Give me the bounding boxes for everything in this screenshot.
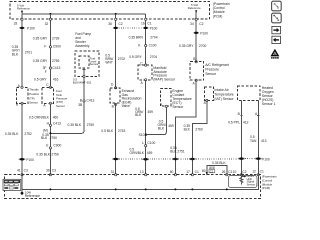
svg-text:2700: 2700 <box>199 44 207 48</box>
svg-text:416: 416 <box>53 78 59 82</box>
PCM bottom dashed box <box>5 175 261 199</box>
svg-text:Reference: Reference <box>17 7 30 11</box>
5V reference bus (top) <box>22 13 146 15</box>
label 0.5 PPL 412 <box>228 121 248 125</box>
connector K C100 <box>138 43 156 47</box>
svg-text:2750: 2750 <box>50 136 58 140</box>
EGR pin D <box>111 83 117 89</box>
label 0.35 GRY/BLK 2701 (TP wire) <box>12 45 32 56</box>
svg-text:12: 12 <box>252 169 256 173</box>
PCM top label <box>213 2 230 19</box>
svg-text:P100: P100 <box>27 26 35 30</box>
svg-text:C3: C3 <box>52 169 56 173</box>
label 0.5 BRN/WHT 2702 (EGR 5V) <box>105 54 125 65</box>
pin 26 C1 <box>222 170 233 176</box>
label 0.35 BLK 2751 <box>170 146 185 153</box>
connector H C413 <box>47 122 61 127</box>
wire: IAT low ref elbow <box>192 101 206 175</box>
svg-text:32: 32 <box>45 22 49 26</box>
label 0.5 GRY 2704 <box>129 55 157 59</box>
5 Volt Reference label 1 <box>17 3 30 14</box>
svg-text:C413: C413 <box>87 99 95 103</box>
svg-text:459: 459 <box>147 151 153 155</box>
TP sensor label <box>29 88 39 105</box>
svg-text:0.35 BLK: 0.35 BLK <box>5 132 19 136</box>
label 0.5 ORN/BLK 460 <box>29 116 58 120</box>
svg-text:C2: C2 <box>210 169 214 173</box>
PCM top dashed box <box>10 2 210 20</box>
pin 60 <box>170 170 177 176</box>
svg-text:60: 60 <box>170 170 174 174</box>
label 808 boxed C2 <box>209 166 215 173</box>
svg-text:651: 651 <box>87 81 92 85</box>
MAP sensor dashed box <box>138 65 152 80</box>
svg-text:413: 413 <box>261 139 267 143</box>
svg-text:C2: C2 <box>242 170 246 174</box>
svg-text:Assembly: Assembly <box>75 44 90 48</box>
AC sensor label <box>205 63 229 76</box>
fuel level sensor dashed box <box>79 56 89 68</box>
grommet (EGR low) <box>112 158 119 161</box>
svg-text:P100: P100 <box>200 31 208 35</box>
svg-text:2704: 2704 <box>150 55 158 59</box>
svg-text:36: 36 <box>46 169 50 173</box>
wire: MAP low ref <box>145 80 147 175</box>
svg-text:10: 10 <box>233 170 237 174</box>
grommet (MAP low) <box>142 158 149 161</box>
HO2S dashed box <box>237 86 260 101</box>
label 0.35 BLK 2750 <box>41 133 57 140</box>
svg-text:BLK: BLK <box>170 149 177 153</box>
svg-text:C3: C3 <box>24 169 28 173</box>
svg-text:(MAP) Sensor: (MAP) Sensor <box>153 77 175 81</box>
junction dot <box>49 13 51 15</box>
pin 36 C2 <box>108 18 123 26</box>
svg-text:2759: 2759 <box>87 123 95 127</box>
HO2S pin A <box>255 112 259 116</box>
svg-text:WHT: WHT <box>105 61 113 65</box>
grommet (412) <box>238 157 245 160</box>
svg-text:ORN/BLK: ORN/BLK <box>130 151 145 155</box>
label 0.5 ORN/BLK 459 (ECT) <box>158 120 174 131</box>
splice S102 <box>139 133 147 137</box>
connector F C900 <box>44 44 61 48</box>
svg-text:0.35 BLK: 0.35 BLK <box>212 161 226 165</box>
svg-text:0.35 GRY: 0.35 GRY <box>33 37 48 41</box>
label 0.5 GRY 416 <box>34 78 59 82</box>
svg-text:F: F <box>44 44 46 48</box>
svg-text:C413: C413 <box>52 66 60 70</box>
svg-text:13: 13 <box>140 170 144 174</box>
label 0.5 BLK 2753 <box>101 129 125 133</box>
svg-text:0.5 BLK: 0.5 BLK <box>101 129 114 133</box>
grommet P100 (MAP wire) <box>143 26 158 30</box>
MAP sensor label <box>153 66 175 81</box>
ECT sensor dashed box <box>160 88 171 106</box>
Fuel pump assembly label <box>75 32 91 48</box>
toolbar icon next arrow <box>272 26 281 33</box>
svg-text:Reference: Reference <box>25 194 40 198</box>
fuel level sensor label <box>90 57 99 67</box>
wire: EGR low ref <box>115 103 117 175</box>
grommet P100 (AC wire) <box>193 31 208 35</box>
AC pin A <box>193 79 198 85</box>
svg-text:2752: 2752 <box>24 132 32 136</box>
wire: TP low ref <box>21 103 23 174</box>
svg-text:(TP): (TP) <box>29 96 35 100</box>
svg-text:2701: 2701 <box>25 51 33 55</box>
wire: fuel level signal 651 <box>50 68 85 133</box>
low-ref merge bus <box>49 132 51 134</box>
grommet (AC low) <box>172 158 179 161</box>
EGR valve label <box>122 89 142 108</box>
label 0.5 TAN 413 <box>250 135 267 143</box>
ECT pin A <box>160 103 167 107</box>
svg-text:0.35 BLK: 0.35 BLK <box>68 123 82 127</box>
connector 3F C413 <box>43 66 61 74</box>
svg-text:Sensor 1: Sensor 1 <box>262 102 276 106</box>
warning triangle logo <box>270 49 279 59</box>
pin 17 C1 <box>186 170 199 176</box>
svg-text:(IAT) Sensor: (IAT) Sensor <box>214 97 234 101</box>
svg-text:C900: C900 <box>53 143 61 147</box>
IAT sensor label <box>214 88 234 101</box>
EGR pin B <box>112 103 117 108</box>
wire: HO2S high signal 412 <box>240 100 242 174</box>
pin 34 C2 <box>190 18 204 26</box>
pin 16 C1 <box>141 18 152 25</box>
svg-text:2760: 2760 <box>195 128 203 132</box>
low reference node <box>21 189 41 198</box>
svg-text:C2: C2 <box>119 22 123 26</box>
svg-text:0.35 BLK: 0.35 BLK <box>36 152 50 156</box>
TP sensor dashed box <box>16 87 28 103</box>
svg-text:BLK: BLK <box>158 126 165 130</box>
label 0.5 ORN/BLK 459 (low) <box>130 148 153 156</box>
EGR valve dashed box <box>110 88 120 103</box>
low reference bus <box>22 175 258 190</box>
5 Volt Reference label 2 <box>188 3 201 19</box>
svg-text:C1: C1 <box>228 170 232 174</box>
FTP sensor label <box>56 89 68 108</box>
MAP pin C <box>140 61 146 66</box>
svg-text:Sensor: Sensor <box>56 104 65 108</box>
label 0.35 GRY 2700 (AC 5V) <box>179 44 207 48</box>
svg-text:BLK: BLK <box>41 136 48 140</box>
toolbar icon pan-zoom 2 <box>272 13 282 23</box>
svg-text:412: 412 <box>243 121 249 125</box>
svg-text:459: 459 <box>168 124 174 128</box>
svg-text:TAN: TAN <box>250 139 257 143</box>
svg-text:2759: 2759 <box>51 152 59 156</box>
AC pin B <box>193 57 197 63</box>
toolbar icon back arrow <box>272 36 281 43</box>
internal HO2S high signal box <box>228 175 257 187</box>
svg-text:C100: C100 <box>147 141 155 145</box>
svg-text:P100: P100 <box>150 26 158 30</box>
wire: TP 5V (pin 33) <box>21 14 23 86</box>
FTP pin C <box>46 83 51 89</box>
FTP sensor dashed box <box>42 87 54 103</box>
svg-text:36: 36 <box>108 22 112 26</box>
svg-text:Sensor: Sensor <box>172 105 184 109</box>
pin 32 <box>45 18 52 26</box>
HO2S pin B <box>238 112 243 116</box>
legend table bottom-left <box>3 179 21 190</box>
label 0.5 ORN/BLK 459 (MAP) <box>135 107 153 117</box>
connector L C100 <box>142 141 155 147</box>
FTP pin A <box>43 102 51 107</box>
svg-text:P100: P100 <box>262 157 270 161</box>
svg-text:Sensor 1: Sensor 1 <box>247 182 258 186</box>
pin 31 <box>111 170 117 176</box>
svg-text:BLK: BLK <box>184 128 191 132</box>
svg-text:C1: C1 <box>195 170 199 174</box>
svg-text:BLK: BLK <box>12 52 19 56</box>
svg-text:F: F <box>45 70 47 74</box>
pin 12 C1 <box>252 169 264 175</box>
svg-text:C1: C1 <box>147 21 151 25</box>
grommet P100 (TP wire) <box>19 26 35 30</box>
PCM bottom label <box>262 175 277 190</box>
svg-text:80: 80 <box>202 169 206 173</box>
svg-text:31: 31 <box>111 170 115 174</box>
svg-text:2739: 2739 <box>52 37 60 41</box>
label 0.35 BLK 2759 (651 low) <box>68 123 95 127</box>
bus junction dots <box>49 188 51 190</box>
svg-text:BLK/WHT: BLK/WHT <box>73 81 86 85</box>
HO2S label <box>262 86 276 106</box>
wire: HO2S low 413 <box>257 100 259 174</box>
wire: FTP 5V (pin 32) <box>49 14 51 87</box>
IAT pin A <box>204 99 208 105</box>
svg-text:(M): (M) <box>43 128 48 132</box>
connector E C900 <box>46 143 61 149</box>
svg-text:0.5 GRY: 0.5 GRY <box>129 55 142 59</box>
wire: AC low ref elbow <box>175 80 196 175</box>
grommet (EGR wire) <box>113 27 119 29</box>
svg-text:Reference: Reference <box>188 6 201 10</box>
fuel pump assembly dashed box <box>75 51 99 77</box>
MAP pin A <box>141 79 147 85</box>
svg-text:0.5 PPL: 0.5 PPL <box>228 121 240 125</box>
svg-text:34: 34 <box>190 22 194 26</box>
label 0.35 BRN 2704 (MAP 5V) <box>129 36 158 40</box>
svg-text:2751: 2751 <box>177 149 185 153</box>
IAT sensor dashed box <box>205 87 214 101</box>
svg-text:Valve: Valve <box>122 104 130 108</box>
svg-text:Sensor: Sensor <box>205 72 217 76</box>
svg-text:Sensor: Sensor <box>29 101 38 105</box>
svg-text:459: 459 <box>147 110 153 114</box>
grommet dotted line bottom <box>119 158 238 160</box>
wire: MAP 5V (pin 16 C1) <box>145 14 147 65</box>
TP pin B <box>16 102 23 106</box>
wire: AC press 5V (pin 34 C2) <box>195 19 197 62</box>
svg-text:Intake Air: Intake Air <box>214 88 229 92</box>
svg-text:(PCM): (PCM) <box>262 186 270 190</box>
svg-text:C100: C100 <box>149 43 157 47</box>
label 0.35 BLK 2760 <box>184 124 203 131</box>
ECT sensor label <box>172 89 191 109</box>
svg-text:26: 26 <box>222 170 226 174</box>
svg-text:16: 16 <box>141 21 145 25</box>
svg-text:Throttle: Throttle <box>29 88 39 92</box>
wire: ECT to splice <box>146 106 166 134</box>
svg-text:460: 460 <box>53 116 59 120</box>
svg-text:Position: Position <box>29 92 39 96</box>
grommet dotted link <box>119 27 143 29</box>
AC refrigerant pressure sensor dashed box <box>190 62 204 80</box>
wire: EGR 5V (pin 36 C2) <box>115 14 117 88</box>
svg-text:0.35 BRN: 0.35 BRN <box>129 36 144 40</box>
svg-text:BLK: BLK <box>135 113 142 117</box>
svg-text:2702: 2702 <box>118 57 126 61</box>
junction dot <box>115 13 117 15</box>
svg-text:0.35 GRY: 0.35 GRY <box>179 44 194 48</box>
pin 36 C3 <box>46 169 56 176</box>
pin 33 <box>14 18 24 25</box>
internal HO2S label <box>247 174 258 186</box>
svg-text:L: L <box>142 141 144 145</box>
grommet P100 (TP low) <box>19 158 35 162</box>
pin 13 <box>140 170 147 176</box>
svg-text:2704: 2704 <box>150 36 158 40</box>
svg-text:33: 33 <box>14 21 18 25</box>
svg-text:0.5 ORN/BLK: 0.5 ORN/BLK <box>29 116 50 120</box>
svg-text:(PCM): (PCM) <box>213 14 223 18</box>
svg-text:Sensor: Sensor <box>90 62 99 66</box>
label 0.35 GRY 2739 <box>33 37 60 41</box>
svg-text:C2: C2 <box>199 22 203 26</box>
pin 10 C2 <box>233 170 247 176</box>
svg-text:2753: 2753 <box>118 129 126 133</box>
wire: FTP low ref <box>49 103 51 174</box>
label 0.35 GRY 2759 <box>33 59 60 63</box>
pin 41 C3 <box>17 169 28 176</box>
grommet P100 (413) <box>255 157 270 161</box>
svg-text:0.5 GRY: 0.5 GRY <box>34 78 47 82</box>
svg-text:17: 17 <box>186 170 190 174</box>
svg-text:C413: C413 <box>53 122 61 126</box>
svg-text:C900: C900 <box>53 44 61 48</box>
toolbar icon pan-zoom 1 <box>272 1 282 11</box>
svg-text:41: 41 <box>17 169 21 173</box>
label 0.35 BLK 2759 <box>36 152 59 156</box>
svg-text:0.35 GRY: 0.35 GRY <box>33 59 48 63</box>
pin on fuel pump box <box>83 75 85 77</box>
svg-text:Temperature: Temperature <box>214 92 233 96</box>
svg-text:2759: 2759 <box>52 59 60 63</box>
svg-text:P100: P100 <box>26 158 34 162</box>
label 0.5 BLK/WHT 651 <box>73 78 92 85</box>
grommet (IAT low) <box>189 158 196 161</box>
jumper wire 808 (pin 80 C2 to pin 26 C1) <box>206 166 227 176</box>
label 0.35 BLK 2752 <box>5 132 32 136</box>
svg-text:C1: C1 <box>260 169 264 173</box>
connector B C413 (651) <box>78 99 94 107</box>
